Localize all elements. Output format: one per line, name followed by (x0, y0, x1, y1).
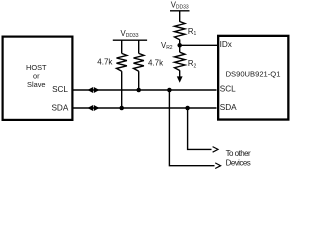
label To other Devices (226, 149, 251, 168)
supply VDD33 (pull-up rail) (113, 29, 147, 40)
supply VDD33 (ID divider) (170, 0, 190, 21)
ground (down arrow below R2) (177, 70, 183, 83)
svg-text:IDx: IDx (220, 40, 232, 49)
svg-text:SDA: SDA (51, 104, 68, 113)
svg-text:Devices: Devices (226, 158, 251, 167)
bidirectional arrow on SCL (87, 87, 99, 93)
svg-text:To other: To other (226, 149, 251, 158)
svg-text:SDA: SDA (220, 103, 237, 112)
HOST/Slave block U1 (3, 37, 73, 120)
svg-text:or: or (33, 71, 40, 80)
svg-text:Slave: Slave (27, 80, 46, 89)
svg-text:SCL: SCL (52, 85, 68, 94)
arrowhead (open) lower (215, 163, 220, 169)
resistor R1 (175, 22, 185, 46)
wire SDA to other devices (188, 108, 212, 149)
resistor R3 4.7k (pull-up to SDA) (117, 40, 127, 108)
wire SCL bus (74, 89, 217, 91)
node SDA pull-up junction (119, 106, 124, 111)
node SDA tap to other devices (185, 106, 190, 111)
svg-text:SCL: SCL (220, 85, 236, 94)
node VR2 (divider tap) (177, 43, 182, 48)
resistor R2 (175, 45, 185, 70)
arrowhead (open) upper (213, 147, 218, 153)
svg-text:DS90UB921-Q1: DS90UB921-Q1 (226, 70, 281, 79)
wire SCL to other devices (169, 90, 214, 166)
wire SDA bus (74, 107, 217, 109)
svg-text:4.7k: 4.7k (148, 58, 164, 67)
bidirectional arrow on SDA (87, 105, 99, 111)
wire to IDx pin (180, 44, 219, 46)
node SCL pull-up junction (136, 88, 141, 93)
DS90UB921-Q1 block U2 (218, 36, 288, 120)
resistor R4 4.7k (pull-up to SCL) (134, 40, 144, 90)
node SCL tap to other devices (167, 88, 172, 93)
svg-text:4.7k: 4.7k (97, 57, 113, 66)
